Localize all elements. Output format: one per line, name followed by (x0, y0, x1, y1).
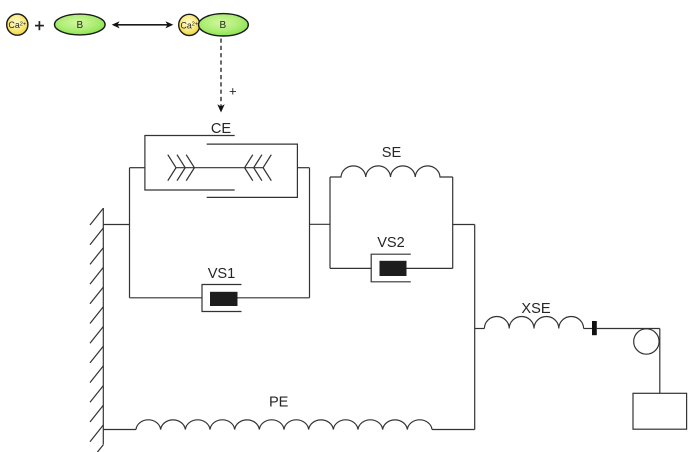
svg-text:VS2: VS2 (377, 235, 405, 251)
svg-text:XSE: XSE (521, 301, 550, 317)
svg-text:B: B (76, 20, 83, 31)
svg-text:VS1: VS1 (208, 266, 236, 282)
svg-text:SE: SE (382, 145, 402, 161)
svg-text:CE: CE (211, 121, 232, 137)
svg-text:+: + (229, 84, 237, 99)
svg-text:B: B (219, 20, 226, 31)
svg-text:PE: PE (269, 395, 289, 411)
